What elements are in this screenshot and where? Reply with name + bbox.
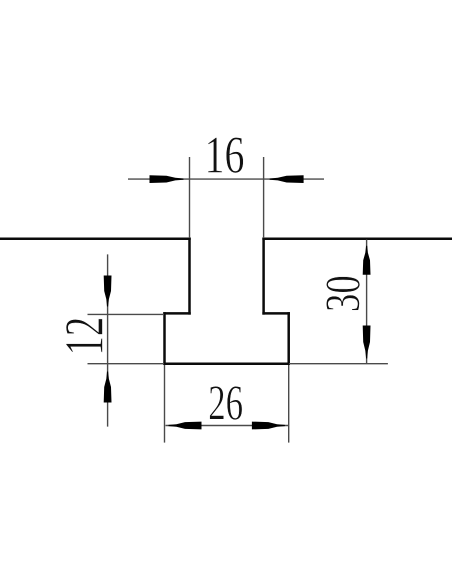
dimension line 16 <box>128 178 324 180</box>
dimension 12 (lip height) <box>55 254 164 426</box>
arrowhead top (points down) <box>104 276 112 307</box>
dimension line 26 <box>166 425 289 427</box>
wire: top surface right segment <box>264 238 452 241</box>
arrowhead bottom (points down) <box>363 326 371 359</box>
arrowhead right (points right) <box>252 422 285 430</box>
extension line right of dim 16 <box>263 157 265 238</box>
svg-text:12: 12 <box>55 317 115 356</box>
wire: slot left wall <box>188 239 191 314</box>
svg-text:30: 30 <box>316 275 371 312</box>
extension line upper of dim 12 <box>88 313 165 315</box>
arrowhead left (points right) <box>150 175 184 183</box>
dimension 16 (slot width) <box>128 126 324 238</box>
extension line left of dim 16 <box>189 157 191 238</box>
dimension line 30 <box>366 240 368 364</box>
arrowhead top (points up) <box>363 246 371 275</box>
arrowhead left (points left) <box>169 422 202 430</box>
dimension 30 (total depth) <box>289 240 388 364</box>
wire: wide cavity right wall <box>287 313 290 363</box>
dimension line 12 <box>107 254 109 426</box>
arrowhead right (points left) <box>270 175 304 183</box>
wire: cavity bottom <box>165 362 289 365</box>
wire: slot right wall <box>262 239 265 314</box>
wire: top surface left segment <box>0 238 190 241</box>
wire: step shoulder right <box>264 312 289 315</box>
arrowhead bottom (points up) <box>104 372 112 403</box>
wire: wide cavity left wall <box>163 313 166 363</box>
extension line left of dim 26 <box>164 365 166 443</box>
dimension 26 (cavity width) <box>165 365 289 443</box>
extension line right of dim 26 <box>288 365 290 443</box>
svg-text:16: 16 <box>205 126 245 185</box>
T-slot profile outline (thick object lines) <box>0 239 452 364</box>
svg-text:26: 26 <box>208 376 243 430</box>
extension line bottom of dim 30 <box>289 363 388 365</box>
wire: step shoulder left <box>165 312 190 315</box>
extension line lower of dim 12 <box>88 363 165 365</box>
